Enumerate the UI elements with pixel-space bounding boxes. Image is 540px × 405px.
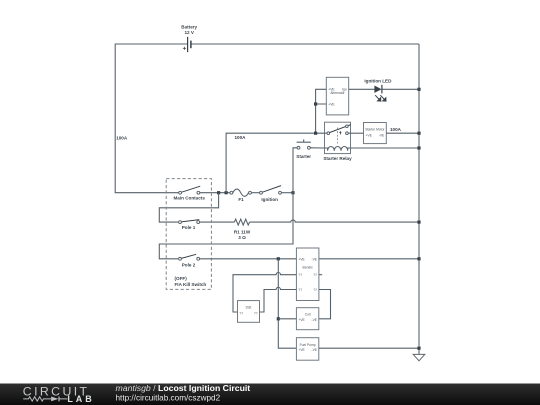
svg-text:+VE: +VE [298, 257, 305, 261]
svg-text:R1 11W: R1 11W [234, 230, 251, 235]
wire module mid-right stub [319, 274, 322, 276]
svg-text:Pole 2: Pole 2 [182, 263, 196, 268]
node rail at module row [417, 257, 420, 260]
svg-text:Fuel Pump: Fuel Pump [300, 343, 316, 347]
node rail at relay coil row [417, 146, 420, 149]
FIA kill switch dashed enclosure [166, 179, 211, 290]
svg-text:FIA Kill Switch: FIA Kill Switch [175, 282, 207, 287]
svg-text:??: ?? [313, 288, 317, 292]
wire right rail [418, 44, 420, 354]
node junction to relay feed [225, 191, 228, 194]
svg-text:Dist: Dist [246, 306, 252, 310]
wire main contacts out to fuse [200, 192, 230, 194]
wire fuse to ignition [252, 192, 260, 194]
wire alternator Ign to LED [349, 88, 375, 90]
wire module bot-left to dist right with hop [260, 287, 297, 312]
node rail at fuel pump row [417, 347, 420, 350]
wire R1 to right rail with hop over vertical [250, 220, 419, 222]
module box (Bendix) [296, 248, 319, 301]
wire relay contact to starter motor [351, 132, 364, 134]
wire battery right to right rail top [191, 43, 419, 45]
wire module -VE to right rail [319, 258, 419, 260]
svg-text:-VE: -VE [312, 318, 318, 322]
svg-text:+VE: +VE [328, 102, 335, 106]
svg-text:??: ?? [298, 273, 302, 277]
wire module mid-left to dist left with hop [233, 273, 296, 312]
svg-text:Bendix: Bendix [303, 266, 313, 270]
starter motor M1 [364, 123, 387, 144]
ground [413, 354, 425, 360]
svg-text:mantisgb / Locost Ignition Cir: mantisgb / Locost Ignition Circuit [116, 383, 251, 393]
switch Pole 2 [179, 254, 200, 267]
node pole2 output junction [277, 257, 280, 260]
svg-text:Ignition LED: Ignition LED [364, 79, 392, 84]
svg-text:??: ?? [239, 312, 243, 316]
svg-text:LAB: LAB [67, 394, 94, 404]
coil box [296, 308, 318, 330]
svg-text:http://circuitlab.com/cszwpd2: http://circuitlab.com/cszwpd2 [116, 394, 221, 403]
footer text [116, 383, 251, 403]
node alternator feed on relay wire [314, 132, 317, 135]
node alternator +VE join [314, 102, 317, 105]
svg-text:Ignition: Ignition [261, 197, 278, 202]
pushbutton Starter [296, 139, 311, 159]
svg-text:-VE: -VE [379, 133, 385, 137]
svg-text:Battery: Battery [181, 25, 197, 30]
wire battery left to left rail [115, 44, 187, 193]
svg-text:-VE: -VE [312, 348, 318, 352]
node junction to pole1 feed [217, 191, 220, 194]
wire ignition junction down to pole2 feed [159, 193, 293, 259]
svg-text:3 Ω: 3 Ω [238, 235, 246, 240]
distributor box Dist [238, 301, 260, 323]
svg-text:Alternator: Alternator [330, 91, 345, 95]
relay Starter Relay [323, 122, 352, 161]
battery B1 [181, 25, 197, 52]
svg-text:100A: 100A [390, 127, 402, 132]
svg-text:??: ?? [313, 273, 317, 277]
wire alternator +VE terminals to relay feed [316, 89, 327, 133]
wire up to starter relay contact [226, 133, 324, 193]
footer bar [0, 384, 540, 405]
wire starter button to relay coil [310, 147, 324, 149]
svg-text:Pole 1: Pole 1 [182, 225, 196, 230]
svg-text:100A: 100A [116, 135, 128, 140]
wire starter motor to right rail [386, 132, 419, 134]
svg-text:+VE: +VE [366, 133, 373, 137]
wire starter button feed [293, 148, 297, 193]
switch Pole 1 [179, 220, 200, 230]
svg-text:12 V: 12 V [184, 30, 194, 35]
svg-text:F1: F1 [238, 197, 244, 202]
wire ignition to junction [282, 192, 294, 194]
svg-text:+VE: +VE [298, 318, 305, 322]
wire jog to Pole 1 [159, 193, 218, 222]
label 100A left [116, 135, 128, 140]
svg-text:??: ?? [254, 312, 258, 316]
wire pole2 to module [200, 258, 297, 260]
node rail at starter motor row [417, 132, 420, 135]
alternator box [326, 77, 348, 115]
wire pole2 junction down to fuel pump [278, 259, 296, 348]
svg-text:Starter Relay: Starter Relay [323, 156, 352, 161]
wire pole1 to R1 [200, 221, 235, 223]
wire module bot-right to coil -VE [319, 290, 331, 319]
svg-text:Main Contacts: Main Contacts [173, 196, 205, 201]
svg-text:+VE: +VE [298, 348, 305, 352]
switch Main Contacts [173, 186, 205, 200]
wire coil feed [278, 318, 296, 320]
fuel pump box [296, 338, 318, 361]
svg-text:Coil: Coil [305, 313, 311, 317]
label 100A right [390, 127, 402, 132]
svg-text:Starter Motor: Starter Motor [365, 127, 385, 131]
node rail at LED row [417, 88, 420, 91]
wire fuel pump to right rail [319, 347, 419, 349]
node ignition junction [291, 191, 294, 194]
wire relay coil to right rail [351, 147, 420, 149]
svg-text:100A: 100A [235, 135, 247, 140]
svg-text:-VE: -VE [312, 257, 318, 261]
fuse F1 [230, 189, 251, 202]
switch Ignition [260, 186, 282, 202]
svg-text:(OFF): (OFF) [175, 276, 188, 281]
svg-text:Starter: Starter [296, 154, 311, 159]
LED D1 Ignition LED [364, 79, 392, 102]
node rail at R1 row [417, 221, 420, 224]
svg-text:??: ?? [298, 288, 302, 292]
resistor R1 [234, 219, 251, 240]
CircuitLab logo [23, 384, 95, 404]
node coil feed junction [277, 317, 280, 320]
wire LED to right rail [383, 88, 420, 90]
label 100A mid [235, 135, 247, 140]
